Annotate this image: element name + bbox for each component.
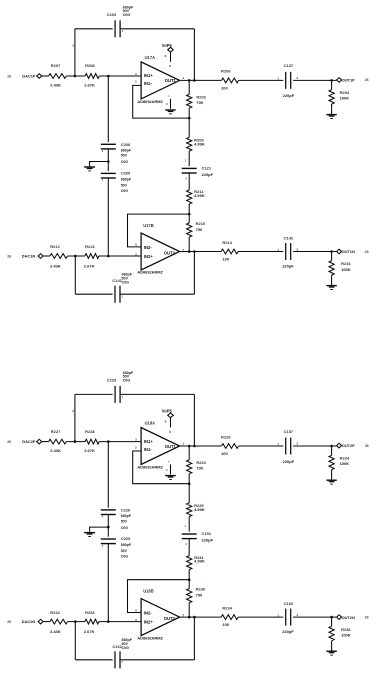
junction chain node 1 <box>188 117 191 120</box>
svg-text:OUT2: OUT2 <box>164 251 176 256</box>
svg-text:100: 100 <box>221 451 228 456</box>
svg-text:1: 1 <box>277 613 279 617</box>
svg-text:OUT2P: OUT2P <box>342 443 355 448</box>
svg-text:C121: C121 <box>202 166 212 171</box>
wire between caps <box>107 515 109 537</box>
wire filter node B riser <box>107 178 109 256</box>
svg-text:4: 4 <box>166 468 168 472</box>
svg-text:C0G: C0G <box>121 554 129 558</box>
svg-text:2: 2 <box>135 80 137 84</box>
wire feedback B bottom left <box>75 659 112 661</box>
resistor R216 100K <box>329 252 351 285</box>
wire feedback A left riser <box>74 394 76 441</box>
svg-text:4.99K: 4.99K <box>194 141 205 146</box>
svg-text:R202: R202 <box>196 95 206 100</box>
svg-text:100: 100 <box>222 622 229 627</box>
svg-text:26: 26 <box>365 444 369 448</box>
svg-text:100K: 100K <box>340 96 350 101</box>
resistor R226 100 <box>221 434 239 456</box>
svg-text:IN1+: IN1+ <box>144 73 153 78</box>
svg-text:3: 3 <box>135 72 137 76</box>
ground output A <box>326 480 336 481</box>
svg-text:R213: R213 <box>85 244 95 249</box>
svg-text:4.99K: 4.99K <box>194 507 205 512</box>
svg-text:AD8692ARMZ: AD8692ARMZ <box>137 270 163 275</box>
power VoP5 pin 8 <box>162 408 174 433</box>
junction filter node A <box>107 440 110 443</box>
svg-text:2.43K: 2.43K <box>50 448 61 453</box>
junction output A <box>330 79 333 82</box>
resistor R211 4.99K <box>187 173 205 214</box>
resistor R230 790 <box>187 580 206 617</box>
svg-text:OUT1: OUT1 <box>165 78 177 83</box>
resistor R204 100K <box>329 80 350 114</box>
wire cap to output port A <box>293 79 337 81</box>
svg-text:220pF: 220pF <box>283 93 295 98</box>
capacitor C206 680pF <box>101 142 132 164</box>
svg-text:R236: R236 <box>341 627 351 632</box>
svg-text:790: 790 <box>196 100 203 105</box>
svg-text:50V: 50V <box>121 154 128 158</box>
svg-text:2: 2 <box>296 76 298 80</box>
capacitor C137 220pF <box>277 63 298 98</box>
capacitor C157 220pF <box>277 429 298 464</box>
svg-text:R212: R212 <box>50 244 60 249</box>
svg-text:U17B: U17B <box>143 223 154 228</box>
wire node to op-amp B <box>99 255 141 257</box>
svg-text:>: > <box>168 94 170 98</box>
svg-text:2: 2 <box>296 442 298 446</box>
svg-text:2: 2 <box>72 409 74 413</box>
wire filter node A riser <box>107 442 109 508</box>
ground op-amp A pin 4 <box>165 94 175 114</box>
resistor R209 4.99K <box>187 118 205 166</box>
junction feedback tap A <box>74 440 77 443</box>
op-amp U17B <box>135 223 184 275</box>
capacitor C226 680pF <box>101 508 132 530</box>
svg-text:3: 3 <box>135 437 137 441</box>
svg-text:C0G: C0G <box>123 13 131 17</box>
junction feedback tap out A <box>193 79 196 82</box>
resistor R213 2.67K <box>84 244 99 268</box>
wire feedback B bottom left <box>75 293 112 295</box>
junction chain tap A <box>188 445 191 448</box>
resistor R236 100K <box>329 617 351 650</box>
junction chain node 2 <box>188 578 191 581</box>
svg-text:26: 26 <box>7 440 11 444</box>
resistor R206 100 <box>221 69 239 91</box>
junction feedback tap B <box>74 255 77 258</box>
svg-text:OUT2: OUT2 <box>164 616 176 621</box>
junction output B <box>330 250 333 253</box>
wire feedback A right riser <box>193 29 195 81</box>
svg-text:C0G: C0G <box>121 189 129 193</box>
wire feedback A top right <box>120 28 194 30</box>
capacitor C203 680pF <box>107 5 134 37</box>
resistor R227 2.43K <box>49 429 67 453</box>
ground output A <box>326 114 336 115</box>
svg-text:C226: C226 <box>121 508 131 513</box>
svg-text:2: 2 <box>296 613 298 617</box>
wire to output cap A <box>239 79 284 81</box>
wire to output cap A <box>239 445 284 447</box>
svg-text:2.67K: 2.67K <box>84 82 95 87</box>
ground output B <box>326 285 336 286</box>
wire feedback B left riser <box>74 256 76 294</box>
svg-text:R206: R206 <box>221 69 231 74</box>
port DAC1P <box>22 73 41 78</box>
capacitor C141 680pF <box>112 273 132 303</box>
svg-text:2.43K: 2.43K <box>50 263 61 268</box>
wire feedback A left riser <box>74 29 76 76</box>
svg-text:IN2-: IN2- <box>144 611 152 616</box>
svg-text:C0G: C0G <box>122 281 130 285</box>
resistor R228 2.67K <box>84 429 99 453</box>
svg-text:C209: C209 <box>121 171 131 176</box>
svg-text:C142: C142 <box>284 235 294 240</box>
svg-text:8: 8 <box>169 430 171 434</box>
resistor R212 2.43K <box>50 244 68 268</box>
svg-text:1: 1 <box>277 248 279 252</box>
svg-text:100K: 100K <box>341 633 351 638</box>
svg-text:R226: R226 <box>221 434 231 439</box>
resistor R233 2.67K <box>84 610 99 634</box>
svg-text:680pF: 680pF <box>121 148 132 152</box>
wire feedback A right riser <box>193 394 195 446</box>
wire node to op-amp A <box>99 441 141 443</box>
junction chain tap A <box>188 79 191 82</box>
wire feedback A top right <box>120 393 194 395</box>
svg-text:IN2+: IN2+ <box>144 620 153 625</box>
svg-text:790: 790 <box>196 593 203 598</box>
wire feedback B left riser <box>74 622 76 660</box>
svg-text:IN2-: IN2- <box>144 245 152 250</box>
svg-text:26: 26 <box>365 78 369 82</box>
svg-text:26: 26 <box>7 254 11 258</box>
wire R to node B <box>68 621 85 623</box>
svg-text:C162: C162 <box>284 601 294 606</box>
op-amp U17A <box>135 55 184 104</box>
wire input DAC2P to R stage <box>42 441 49 443</box>
junction filter node B <box>107 620 110 623</box>
svg-text:2.43K: 2.43K <box>50 629 61 634</box>
svg-text:DAC2N: DAC2N <box>22 619 36 624</box>
svg-text:R204: R204 <box>340 90 350 95</box>
wire cap to output port B <box>293 616 337 618</box>
resistor R232 2.43K <box>50 610 68 634</box>
wire feedback A top left <box>75 393 113 395</box>
junction feedback tap out A <box>193 445 196 448</box>
svg-text:U18B: U18B <box>143 589 154 594</box>
svg-text:DAC1P: DAC1P <box>22 73 36 78</box>
svg-text:IN1-: IN1- <box>144 81 152 86</box>
wire to output cap B <box>238 616 283 618</box>
capacitor C151 220pF <box>182 524 214 546</box>
svg-text:U17A: U17A <box>145 55 156 60</box>
svg-text:R230: R230 <box>196 587 206 592</box>
svg-text:C0G: C0G <box>122 646 130 650</box>
svg-text:1: 1 <box>277 442 279 446</box>
svg-text:220pF: 220pF <box>202 172 214 177</box>
wire filter node A riser <box>107 76 109 142</box>
svg-text:220pF: 220pF <box>202 537 214 542</box>
resistor R231 4.99K <box>187 539 205 580</box>
capacitor C121 220pF <box>182 159 214 181</box>
resistor R214 100 <box>221 240 238 262</box>
wire op-amp A output <box>180 79 222 81</box>
svg-text:IN1-: IN1- <box>144 447 152 452</box>
junction feedback tap B <box>74 620 77 623</box>
port DAC1N <box>22 253 43 258</box>
svg-text:26: 26 <box>7 74 11 78</box>
wire R to node <box>66 441 85 443</box>
wire R to node <box>66 75 85 77</box>
wire cap to output port B <box>293 251 337 253</box>
svg-text:100K: 100K <box>340 461 350 466</box>
svg-text:2.43K: 2.43K <box>50 82 61 87</box>
wire feedback B bottom right <box>120 659 194 661</box>
svg-text:4: 4 <box>166 102 168 106</box>
svg-text:>: > <box>168 460 170 464</box>
wire input B <box>43 621 50 623</box>
capacitor C209 680pF <box>101 171 132 193</box>
port OUT1P <box>337 78 369 83</box>
svg-text:26: 26 <box>365 616 369 620</box>
capacitor C142 220pF <box>277 235 298 268</box>
svg-text:C223: C223 <box>107 378 117 383</box>
svg-text:50V: 50V <box>121 519 128 523</box>
svg-text:1: 1 <box>277 76 279 80</box>
svg-text:5: 5 <box>135 252 137 256</box>
wire node to op-amp B <box>99 621 141 623</box>
junction filter node A <box>107 75 110 78</box>
ground output B <box>326 651 336 652</box>
svg-text:OUT2N: OUT2N <box>342 615 355 620</box>
svg-text:2.67K: 2.67K <box>84 263 95 268</box>
svg-text:2.67K: 2.67K <box>84 629 95 634</box>
svg-text:50V: 50V <box>121 183 128 187</box>
port DAC2N <box>22 619 43 624</box>
svg-text:100K: 100K <box>341 267 351 272</box>
svg-text:4.99K: 4.99K <box>194 193 205 198</box>
wire input B <box>43 255 50 257</box>
svg-text:R232: R232 <box>50 610 60 615</box>
svg-text:DAC1N: DAC1N <box>22 253 36 258</box>
svg-text:R233: R233 <box>85 610 95 615</box>
svg-text:C206: C206 <box>121 142 131 147</box>
svg-text:8: 8 <box>169 64 171 68</box>
junction output A <box>330 445 333 448</box>
svg-text:2: 2 <box>72 44 74 48</box>
wire to output cap B <box>238 251 283 253</box>
resistor R207 2.43K <box>49 63 67 87</box>
svg-text:6: 6 <box>135 608 137 612</box>
ground middle caps <box>84 527 108 537</box>
wire inverting feedback B <box>128 214 190 247</box>
svg-text:790: 790 <box>196 227 203 232</box>
svg-text:C157: C157 <box>284 429 294 434</box>
svg-text:R210: R210 <box>196 221 206 226</box>
wire feedback B right riser <box>193 252 195 295</box>
svg-text:4.99K: 4.99K <box>194 559 205 564</box>
svg-text:C203: C203 <box>107 12 117 17</box>
svg-text:R214: R214 <box>222 240 232 245</box>
svg-text:AD8692ARMZ: AD8692ARMZ <box>137 465 163 470</box>
svg-text:R224: R224 <box>340 456 350 461</box>
wire node to op-amp A <box>99 75 141 77</box>
svg-text:50V: 50V <box>121 549 128 553</box>
svg-text:8: 8 <box>165 54 167 58</box>
svg-text:2: 2 <box>296 247 298 251</box>
wire cap to output port A <box>293 445 337 447</box>
resistor R208 2.67K <box>84 63 99 87</box>
svg-text:220pF: 220pF <box>283 459 295 464</box>
wire inverting feedback A <box>133 85 190 118</box>
junction feedback tap out B <box>193 250 196 253</box>
svg-text:OUT1N: OUT1N <box>342 249 355 254</box>
svg-text:DAC2P: DAC2P <box>22 439 36 444</box>
capacitor C161 680pF <box>112 638 132 668</box>
op-amp U18A <box>135 421 184 470</box>
resistor R229 4.99K <box>187 484 205 532</box>
resistor R234 100 <box>221 606 238 628</box>
wire feedback B right riser <box>193 617 195 660</box>
port DAC2P <box>22 439 41 444</box>
wire op-amp A output <box>180 445 222 447</box>
junction output B <box>330 616 333 619</box>
svg-text:100: 100 <box>221 86 228 91</box>
svg-text:C0G: C0G <box>121 526 129 530</box>
svg-text:R207: R207 <box>51 63 61 68</box>
wire feedback A top left <box>75 28 113 30</box>
svg-text:1: 1 <box>182 76 184 80</box>
svg-text:R234: R234 <box>222 606 232 611</box>
resistor R210 790 <box>187 214 206 251</box>
svg-text:C0G: C0G <box>121 160 129 164</box>
svg-text:5: 5 <box>135 618 137 622</box>
junction feedback tap A <box>74 75 77 78</box>
ground middle caps <box>84 162 108 172</box>
junction chain node 2 <box>188 213 191 216</box>
wire filter node B riser <box>107 544 109 622</box>
svg-text:R228: R228 <box>85 429 95 434</box>
svg-text:8: 8 <box>165 419 167 423</box>
op-amp U18B <box>135 589 184 641</box>
junction filter node B <box>107 255 110 258</box>
svg-text:AD8692ARMZ: AD8692ARMZ <box>137 635 163 640</box>
svg-text:1: 1 <box>182 442 184 446</box>
svg-text:R222: R222 <box>196 460 206 465</box>
svg-text:6: 6 <box>135 243 137 247</box>
svg-text:2.67K: 2.67K <box>84 448 95 453</box>
svg-text:OUT1P: OUT1P <box>342 78 355 83</box>
wire feedback B bottom right <box>120 293 194 295</box>
svg-text:2: 2 <box>135 445 137 449</box>
wire between caps <box>107 149 109 171</box>
port OUT2P <box>337 443 369 448</box>
wire op-amp B output <box>180 251 222 253</box>
svg-text:220pF: 220pF <box>282 264 294 269</box>
wire op-amp B output <box>180 616 222 618</box>
port OUT1N <box>337 249 369 254</box>
svg-text:26: 26 <box>7 620 11 624</box>
svg-text:R227: R227 <box>51 429 61 434</box>
svg-text:220pF: 220pF <box>282 629 294 634</box>
svg-text:IN2+: IN2+ <box>144 254 153 259</box>
capacitor C162 220pF <box>277 601 298 634</box>
ground op-amp A pin 4 <box>165 460 175 480</box>
resistor R224 100K <box>329 446 350 480</box>
resistor R202 790 <box>187 80 207 118</box>
svg-text:U18A: U18A <box>145 421 156 426</box>
capacitor C223 680pF <box>107 371 134 403</box>
wire input DAC1P to R stage <box>42 75 49 77</box>
junction feedback tap out B <box>193 616 196 619</box>
svg-text:C229: C229 <box>121 536 131 541</box>
junction ground tap <box>107 160 110 163</box>
svg-text:680pF: 680pF <box>121 514 132 518</box>
svg-text:C151: C151 <box>202 531 212 536</box>
capacitor C229 680pF <box>101 536 132 558</box>
svg-text:790: 790 <box>196 465 203 470</box>
wire inverting feedback A <box>133 451 190 484</box>
junction chain tap B <box>188 250 191 253</box>
svg-text:C0G: C0G <box>123 379 131 383</box>
svg-text:680pF: 680pF <box>121 177 132 181</box>
svg-text:100: 100 <box>222 257 229 262</box>
svg-text:R216: R216 <box>341 261 351 266</box>
junction chain node 1 <box>188 482 191 485</box>
svg-text:AD8692ARMZ: AD8692ARMZ <box>137 99 163 104</box>
svg-text:IN1+: IN1+ <box>144 439 153 444</box>
svg-text:C137: C137 <box>284 63 294 68</box>
port OUT2N <box>337 615 369 620</box>
resistor R222 790 <box>187 446 207 484</box>
junction chain tap B <box>188 616 191 619</box>
wire inverting feedback B <box>128 580 190 613</box>
wire R to node B <box>68 255 85 257</box>
svg-text:OUT1: OUT1 <box>165 444 177 449</box>
svg-text:R208: R208 <box>85 63 95 68</box>
svg-text:680pF: 680pF <box>121 543 132 547</box>
junction ground tap <box>107 526 110 529</box>
svg-text:26: 26 <box>365 250 369 254</box>
power VoP5 pin 8 <box>162 43 174 68</box>
